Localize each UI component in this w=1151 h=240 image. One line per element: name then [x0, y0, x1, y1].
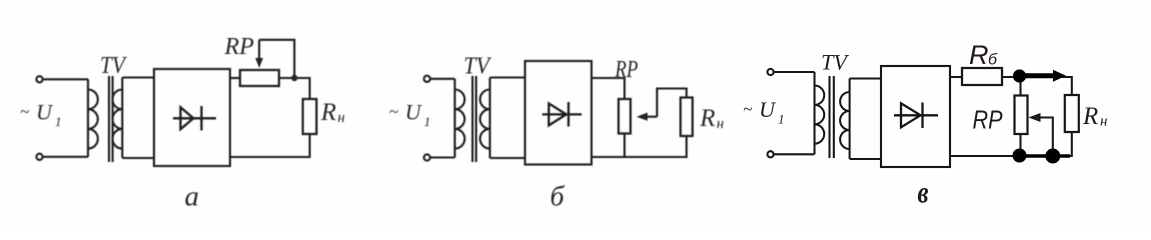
wiper wire to load (b) — [657, 89, 687, 117]
wire secondary top to rectifier (v) — [850, 77, 881, 79]
wire top terminal to primary (b) — [430, 78, 455, 80]
svg-text:R: R — [1082, 103, 1098, 130]
junction node dot after Rb (v) — [1013, 69, 1026, 82]
wire top terminal to primary (a) — [43, 78, 88, 80]
potentiometer RP body (v) — [1015, 96, 1028, 135]
transformer T3 core (v) — [830, 76, 834, 158]
potentiometer RP body (a) — [240, 70, 279, 86]
wire rectifier to RP top stub (b) — [592, 78, 625, 99]
svg-text:н: н — [338, 110, 345, 126]
svg-text:R: R — [699, 105, 715, 132]
svg-text:~: ~ — [389, 102, 398, 121]
svg-text:н: н — [1100, 114, 1107, 130]
RP wiper loop wire (a) — [259, 40, 294, 78]
wire bottom terminal to primary (v) — [774, 153, 815, 155]
wire RP right to load corner (a) — [279, 78, 310, 99]
wire bottom terminal to primary (b) — [430, 156, 455, 158]
wire top terminal to primary (v) — [774, 71, 815, 73]
svg-text:н: н — [717, 116, 724, 132]
svg-text:а: а — [185, 181, 200, 213]
svg-text:б: б — [988, 52, 998, 69]
potentiometer RP body (b) — [619, 99, 631, 134]
rectifier bridge box U2 (b) — [525, 61, 592, 165]
bottom rail wire (v) — [950, 132, 1072, 156]
svg-text:1: 1 — [424, 114, 431, 129]
junction node dot bottom right (v) — [1045, 149, 1060, 164]
rectifier bridge box U1 (a) — [154, 69, 230, 166]
RP bottom stub (b) — [623, 134, 625, 158]
transformer T1 core (a) — [109, 76, 113, 162]
terminal input top (b) — [424, 76, 430, 82]
transformer T1 primary winding (a) — [88, 79, 98, 157]
transformer T2 primary winding (b) — [455, 79, 465, 158]
bottom rail wire (a) — [230, 134, 310, 157]
RP wiper arrow (a) — [258, 40, 260, 59]
transformer T1 secondary winding (a) — [112, 78, 122, 159]
svg-text:~: ~ — [20, 102, 29, 121]
svg-text:RP: RP — [973, 105, 1004, 135]
diode inside rectifier (v) — [894, 103, 938, 129]
terminal input bottom (a) — [36, 154, 42, 160]
terminal input bottom (v) — [767, 151, 773, 157]
bottom rail wire (b) — [592, 136, 687, 157]
svg-text:~: ~ — [743, 100, 752, 119]
svg-text:1: 1 — [778, 112, 785, 127]
transformer T2 secondary winding (b) — [480, 78, 490, 159]
svg-text:в: в — [918, 175, 929, 210]
load resistor Rn body (a) — [303, 99, 317, 134]
wire rectifier to RP (a) — [230, 77, 240, 79]
diode inside rectifier (b) — [542, 102, 581, 127]
RP wiper arrow (v) — [1040, 118, 1053, 157]
transformer T2 core (b) — [473, 76, 477, 162]
junction node dot (a) — [291, 75, 297, 81]
load resistor Rn body (v) — [1065, 95, 1079, 132]
thick current arrow to load (v) — [1021, 73, 1055, 78]
transformer T3 secondary winding (v) — [840, 79, 850, 160]
RP bottom stub (v) — [1019, 134, 1021, 156]
svg-text:U: U — [759, 97, 777, 122]
terminal input top (v) — [767, 69, 773, 75]
wire secondary top to rectifier (a) — [122, 76, 154, 78]
wire bottom terminal to primary (a) — [43, 156, 88, 158]
svg-text:б: б — [550, 182, 565, 213]
svg-text:R: R — [320, 99, 336, 126]
terminal input bottom (b) — [424, 154, 430, 160]
svg-text:TV: TV — [100, 53, 127, 79]
svg-text:TV: TV — [821, 50, 850, 75]
wire Rb to load corner (v) — [1002, 77, 1072, 95]
wire secondary bottom to rectifier (a) — [122, 157, 154, 159]
svg-text:RP: RP — [223, 34, 254, 60]
svg-text:U: U — [36, 100, 54, 125]
terminal input top (a) — [36, 76, 42, 82]
load resistor Rn body (b) — [681, 98, 693, 137]
svg-text:U: U — [405, 100, 423, 125]
rectifier bridge box U3 (v) — [881, 66, 950, 167]
thick annotations (v) — [1013, 69, 1071, 163]
transformer T3 primary winding (v) — [815, 72, 825, 154]
svg-text:TV: TV — [464, 54, 492, 80]
diode inside rectifier (a) — [173, 106, 216, 131]
thick bottom rail segment (v) — [1020, 154, 1071, 158]
svg-text:RP: RP — [614, 57, 638, 83]
ballast resistor Rb body (v) — [962, 68, 1002, 85]
wire rectifier to Rb (v) — [950, 76, 962, 78]
wire secondary top to rectifier (b) — [490, 76, 525, 78]
junction node dot bottom left (v) — [1013, 149, 1027, 163]
RP top stub (v) — [1019, 77, 1021, 96]
svg-text:R: R — [969, 40, 989, 70]
RP wiper arrow (b) — [647, 116, 658, 118]
svg-text:1: 1 — [55, 114, 62, 129]
wire secondary bottom to rectifier (v) — [850, 158, 881, 160]
wire secondary bottom to rectifier (b) — [490, 157, 525, 159]
